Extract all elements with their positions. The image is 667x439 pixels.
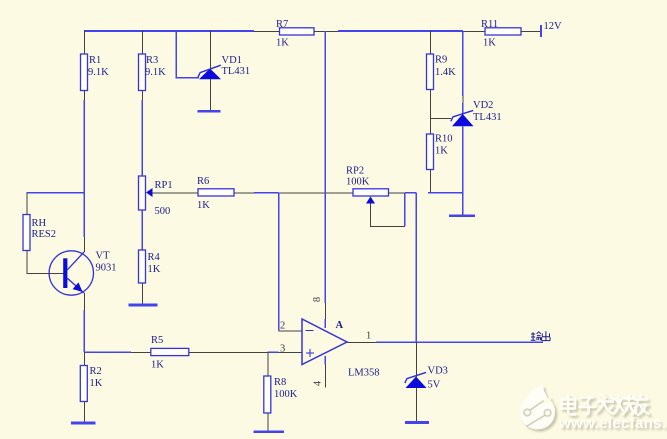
svg-text:9031: 9031 <box>96 263 117 274</box>
wire pin8 blue tip inside <box>324 319 326 328</box>
svg-text:R8: R8 <box>274 377 286 388</box>
resistor R8 <box>264 376 298 413</box>
wire R8 top pin stub <box>267 352 269 376</box>
svg-text:100K: 100K <box>274 389 298 400</box>
svg-text:5V: 5V <box>428 380 441 391</box>
wire R7 left pin stub <box>254 31 280 33</box>
wire VD3 cathode stub <box>416 342 418 377</box>
wire RP2 output to VD3 column <box>405 192 416 194</box>
resistor R7 <box>276 19 314 49</box>
ground under R8 <box>254 430 285 433</box>
wire pin3 dark stub <box>279 352 303 354</box>
svg-text:8: 8 <box>312 297 323 302</box>
wire VD2 cathode blue tip <box>462 103 464 115</box>
resistor R9 <box>427 54 457 90</box>
wire RP2 right pin stub <box>389 192 405 194</box>
wire output line blue <box>376 341 543 343</box>
svg-text:R4: R4 <box>148 252 161 263</box>
wire pin8 dark stub <box>325 303 327 319</box>
svg-text:R10: R10 <box>435 134 453 145</box>
svg-text:100K: 100K <box>346 177 370 188</box>
svg-text:R7: R7 <box>276 19 288 30</box>
wire VD1 cathode stub <box>210 30 212 69</box>
svg-text:TL431: TL431 <box>473 112 502 123</box>
wire RP2 wiper loop <box>371 204 405 227</box>
wire R8 junction to pin3 blue <box>267 351 278 353</box>
wire top rail middle blue segment <box>338 30 463 32</box>
wire RP1 wiper to R6 <box>153 192 199 194</box>
resistor R2 <box>80 366 102 402</box>
wire VD2 reference horizontal <box>430 118 451 120</box>
wire RH top horizontal <box>27 192 85 194</box>
wire R9 top pin stub <box>430 30 432 54</box>
wire VD1 anode stub <box>210 79 212 110</box>
wire R6 to pin2 junction blue <box>254 192 279 194</box>
svg-text:1K: 1K <box>483 38 496 49</box>
resistor R11 <box>481 19 521 49</box>
svg-text:RES2: RES2 <box>32 229 57 240</box>
diode VD1 TL431 <box>198 55 250 79</box>
ground under VD3 <box>405 421 429 424</box>
svg-text:www.elecfans.com: www.elecfans.com <box>558 415 667 432</box>
wire R2 top pin stub <box>84 352 86 366</box>
transistor VT 9031 <box>49 251 116 296</box>
svg-text:1K: 1K <box>276 38 289 49</box>
svg-text:4: 4 <box>312 380 323 386</box>
wire pin2 horizontal dark <box>279 330 303 332</box>
svg-text:R2: R2 <box>90 366 102 377</box>
wire RP2 wiper loop right side blue <box>404 193 406 227</box>
svg-text:1K: 1K <box>148 264 161 275</box>
wire VD2 cathode stub <box>462 96 464 104</box>
wire R10 bottom to VD2 anode line <box>428 192 463 194</box>
ground under R2 <box>71 422 96 425</box>
wire R3 top pin stub <box>142 30 144 54</box>
node output label 输出 <box>531 331 550 340</box>
svg-text:RP2: RP2 <box>346 166 364 177</box>
wire R1 to collector blue <box>83 100 85 237</box>
svg-text:VT: VT <box>96 251 111 262</box>
svg-text:R1: R1 <box>89 55 101 66</box>
svg-text:VD1: VD1 <box>222 55 242 66</box>
wire VD3 column down to output line <box>415 193 417 343</box>
resistor R3 <box>139 54 167 91</box>
potentiometer RP2 <box>346 166 389 204</box>
svg-text:500: 500 <box>155 206 171 217</box>
wire R3 to RP1 blue <box>141 100 143 176</box>
wire pin1 dark stub <box>347 342 376 344</box>
svg-text:2: 2 <box>280 321 285 332</box>
wire emitter down dark <box>84 293 86 310</box>
svg-text:LM358: LM358 <box>348 368 380 379</box>
wire R3 bottom pin stub <box>142 91 144 101</box>
svg-text:R6: R6 <box>197 176 209 187</box>
wire R6 right pin stub <box>234 192 254 194</box>
wire emitter to R2 junction blue <box>83 310 85 352</box>
resistor R6 <box>197 176 234 211</box>
wire VD3 anode stub <box>416 388 418 422</box>
ground under VD2 <box>449 214 475 217</box>
diode VD3 5V <box>405 366 448 391</box>
svg-text:R11: R11 <box>481 19 498 30</box>
svg-text:1.4K: 1.4K <box>435 67 456 78</box>
svg-text:1: 1 <box>366 331 371 342</box>
svg-text:9.1K: 9.1K <box>88 67 109 78</box>
wire R4 bottom pin stub <box>142 283 144 304</box>
svg-text:1K: 1K <box>197 200 210 211</box>
svg-text:A: A <box>336 320 344 331</box>
wire collector dark stub <box>84 237 86 252</box>
wire R9 bottom to R10 top <box>430 90 432 135</box>
resistor R10 <box>427 134 453 170</box>
wire R10 bottom pin stub <box>430 170 432 194</box>
wire pin4 blue tip inside <box>324 356 326 365</box>
resistor R4 <box>139 250 161 283</box>
svg-text:9.1K: 9.1K <box>145 67 166 78</box>
potentiometer RP1 <box>139 176 173 217</box>
resistor R1 <box>81 54 110 91</box>
wire R1 top pin stub <box>84 30 86 54</box>
ground under VD1 <box>198 110 221 113</box>
svg-text:R3: R3 <box>146 55 158 66</box>
watermark text 电子发烧友 <box>562 395 649 416</box>
wire pin4 dark stub <box>325 365 327 388</box>
wire base horizontal <box>27 273 64 275</box>
svg-text:RH: RH <box>32 218 47 229</box>
wire top rail left blue segment <box>84 30 254 32</box>
wire pin8 vertical from rail <box>324 31 326 303</box>
wire R11 right pin stub to 12V <box>521 31 541 33</box>
svg-text:VD3: VD3 <box>428 366 448 377</box>
wire R7 right pin stub <box>314 31 338 33</box>
svg-text:VD2: VD2 <box>473 100 493 111</box>
wire junction to R5 blue <box>84 351 131 353</box>
wire R5 left pin stub <box>131 352 151 354</box>
svg-text:1K: 1K <box>90 378 103 389</box>
svg-text:1K: 1K <box>151 360 164 371</box>
wire RH bottom pin stub <box>26 251 28 274</box>
diode VD2 TL431 <box>451 100 502 126</box>
svg-text:12V: 12V <box>544 21 563 32</box>
wire RH top pin stub <box>26 193 28 215</box>
svg-text:TL431: TL431 <box>222 66 251 77</box>
wire R5 right to R8 junction <box>189 352 267 354</box>
resistor R5 <box>151 335 189 371</box>
wire R1 bottom pin stub <box>84 91 86 101</box>
power port 12V bar <box>540 25 542 37</box>
ground under R4 <box>129 304 158 307</box>
wire VD2 anode down <box>462 126 464 214</box>
watermark logo disc <box>520 386 555 430</box>
wire R2 bottom pin stub <box>84 402 86 422</box>
wire junction to RP2 <box>279 192 354 194</box>
wire R8 bottom pin stub <box>267 413 269 431</box>
wire RP1 bottom to R4 <box>141 210 143 250</box>
wire pin2 vertical branch <box>278 193 280 331</box>
svg-text:RP1: RP1 <box>155 180 173 191</box>
wire R11 left pin stub <box>463 31 485 33</box>
wire VD1 reference branch <box>176 31 199 78</box>
op-amp U1 LM358 <box>302 319 380 379</box>
svg-text:R9: R9 <box>435 55 447 66</box>
svg-text:R5: R5 <box>151 335 163 346</box>
svg-text:1K: 1K <box>435 146 448 157</box>
resistor RH RES2 <box>23 215 56 251</box>
wire VD2 cathode from rail <box>462 31 464 96</box>
